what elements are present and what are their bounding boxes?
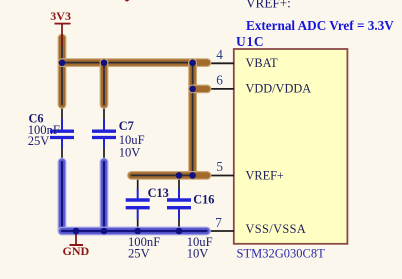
junction dot 3V3 at pin 4 bbox=[189, 60, 196, 67]
capacitor C7 bbox=[92, 119, 116, 148]
capacitor C13 pin top lead bbox=[137, 176, 139, 190]
wire GND vertical from C6 bbox=[58, 162, 67, 231]
capacitor C6 bbox=[50, 119, 74, 148]
pin 6 lead bbox=[196, 88, 234, 90]
pin 7 lead bbox=[200, 230, 234, 232]
svg-text:VSS/VSSA: VSS/VSSA bbox=[246, 222, 307, 236]
wire 3V3 branch to C7 bbox=[100, 63, 109, 105]
wire horizontal over C13 C16 to pin 5 bbox=[132, 171, 208, 180]
junction dot at pin 6 bbox=[189, 86, 196, 93]
svg-text:7: 7 bbox=[215, 215, 222, 230]
pin 4 lead bbox=[196, 62, 234, 64]
svg-text:C7: C7 bbox=[119, 119, 134, 133]
svg-text:STM32G030C8T: STM32G030C8T bbox=[237, 246, 326, 260]
power symbol 3V3 bbox=[50, 9, 71, 46]
label C13 value bbox=[128, 235, 160, 261]
svg-text:5: 5 bbox=[216, 159, 223, 174]
capacitor C6 pin top lead bbox=[61, 100, 63, 119]
capacitor C7 pin bottom lead bbox=[103, 148, 105, 163]
capacitor C13 pin bottom lead bbox=[137, 218, 139, 231]
svg-text:U1C: U1C bbox=[236, 34, 264, 49]
svg-text:External ADC Vref = 3.3V: External ADC Vref = 3.3V bbox=[246, 18, 394, 33]
capacitor C6 pin bottom lead bbox=[61, 148, 63, 163]
wire stub to pin 4 bbox=[193, 58, 207, 67]
svg-text:GND: GND bbox=[63, 244, 90, 258]
svg-text:25V: 25V bbox=[28, 134, 50, 148]
svg-text:VDD/VDDA: VDD/VDDA bbox=[246, 82, 312, 96]
pin 5 lead bbox=[196, 175, 234, 177]
svg-text:C13: C13 bbox=[148, 186, 169, 200]
capacitor C16 pin top lead bbox=[178, 176, 180, 190]
label C7 bbox=[119, 119, 145, 159]
wire GND horizontal bus to pin 7 bbox=[62, 227, 207, 236]
capacitor C13 bbox=[126, 189, 150, 219]
junction dot C16 bottom bbox=[176, 228, 183, 235]
capacitor C7 pin top lead bbox=[103, 100, 105, 119]
svg-text:4: 4 bbox=[216, 47, 223, 62]
svg-text:VREF+: VREF+ bbox=[246, 169, 284, 183]
junction dot C16 top bbox=[176, 172, 183, 179]
wire GND vertical from C7 bbox=[100, 162, 109, 231]
svg-text:VREF+:: VREF+: bbox=[246, 0, 291, 11]
IC U1C (STM32G030C8T) body bbox=[234, 49, 348, 244]
capacitor C16 pin bottom lead bbox=[178, 218, 180, 231]
capacitor C16 bbox=[167, 189, 191, 219]
junction dot 3V3 at C7 bbox=[101, 60, 108, 67]
wire stub to pin 6 bbox=[193, 85, 207, 94]
svg-text:VBAT: VBAT bbox=[246, 56, 279, 70]
cut-off dark red title fragment bbox=[124, 0, 129, 2]
junction dot C7 bottom bbox=[101, 228, 108, 235]
label C6 bbox=[28, 112, 60, 149]
svg-text:25V: 25V bbox=[128, 247, 150, 261]
wire 3V3 vertical branch down bbox=[188, 63, 197, 176]
wire 3V3 vertical from power symbol to C6 bbox=[58, 38, 67, 105]
junction dot 3V3 at C6 bbox=[59, 60, 66, 67]
junction dot GND tap bbox=[73, 228, 80, 235]
junction dot C13 bottom bbox=[134, 228, 141, 235]
wire 3V3 horizontal bus bbox=[62, 58, 193, 67]
junction dot at pin 5 bbox=[189, 172, 196, 179]
svg-text:C16: C16 bbox=[193, 193, 214, 207]
label C16 value bbox=[187, 235, 213, 261]
svg-text:10V: 10V bbox=[119, 146, 141, 160]
svg-text:6: 6 bbox=[216, 72, 223, 87]
svg-text:10V: 10V bbox=[187, 247, 209, 261]
svg-text:3V3: 3V3 bbox=[50, 9, 71, 23]
ground symbol GND bbox=[63, 231, 90, 258]
